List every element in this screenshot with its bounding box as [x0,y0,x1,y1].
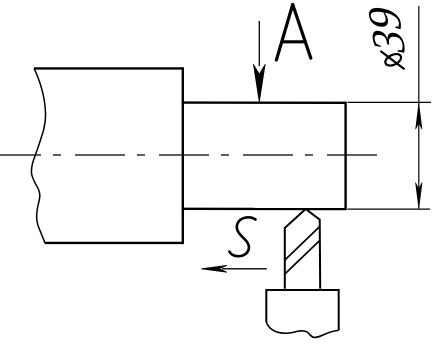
tool holder block: wavy freehand bottom [266,322,338,337]
feed arrow S: line [222,268,267,270]
extension line bottom (for dimension) [348,208,431,210]
label S (script letter) [229,217,255,256]
cutting tool: hatch line 2 [285,241,320,275]
workpiece small cylinder (machined journal): top edge [182,101,346,104]
centerline (axis of workpiece, dash-dot) [0,154,377,156]
dimension label ø39: phi symbol (ellipse + slash) [381,51,405,69]
extension line top (for dimension) [348,101,432,103]
workpiece large cylinder: top edge [34,67,183,69]
tool holder block: top and sides [266,290,338,330]
dimension line vertical [418,6,420,208]
view arrow A: arrowhead (points down) [253,64,265,103]
view arrow A: leader line [258,21,260,66]
workpiece large cylinder: bottom edge [45,242,183,244]
label A (drawn strokes) [276,5,310,60]
cutting tool: shank outline with chamfered tip [285,209,320,289]
dimension label ø39: digits 39 (rotated italic) [357,6,415,54]
feed arrow S: arrowhead (points left) [201,265,227,272]
workpiece small cylinder: right end face [344,102,346,211]
workpiece break line (wavy freehand left edge) [31,68,45,243]
dimension arrowhead top (points up) [416,103,422,129]
cutting tool: hatch line 1 [285,227,320,261]
workpiece large cylinder: right shoulder edge [182,67,184,244]
dimension arrowhead bottom (points down) [416,183,423,209]
workpiece small cylinder: bottom edge [182,208,346,211]
svg-text:39: 39 [357,6,415,54]
